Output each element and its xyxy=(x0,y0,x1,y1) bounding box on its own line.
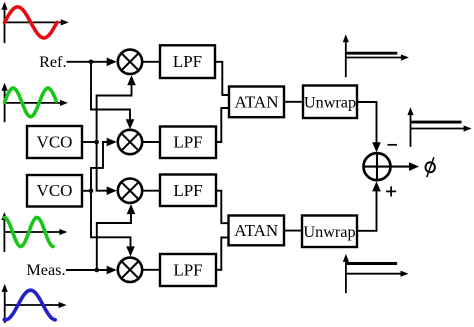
svg-text:Unwrap: Unwrap xyxy=(304,93,356,111)
wire LPF2 to ATAN1 lower input xyxy=(216,108,229,142)
node Meas junction xyxy=(95,268,100,273)
mixer M2 xyxy=(118,130,142,154)
reference input waveform (red sine) xyxy=(5,7,58,38)
wire ATAN1 to Unwrap1 xyxy=(284,101,303,103)
svg-text:LPF: LPF xyxy=(173,52,202,71)
wire Ref down to mixer M2 top xyxy=(91,62,134,129)
phase difference graph axes xyxy=(407,107,471,147)
mixer M1 xyxy=(118,50,142,74)
wire mixer M4 to LPF4 xyxy=(142,269,160,271)
ATAN2 box xyxy=(229,216,285,246)
wire Unwrap1 to summer minus input xyxy=(357,102,381,152)
wire mixer M1 to LPF1 xyxy=(142,61,160,63)
svg-text:LPF: LPF xyxy=(173,181,202,200)
svg-text:VCO: VCO xyxy=(37,132,73,151)
wire ATAN2 to Unwrap2 xyxy=(284,230,302,232)
mixer M3 xyxy=(118,179,142,203)
reference input waveform graph (red sine) axes xyxy=(1,2,68,43)
wire LPF4 to ATAN2 lower input xyxy=(216,238,229,270)
VCO2 output waveform (green cosine) xyxy=(4,218,53,247)
wire VCO1 down to mixer M3 left xyxy=(97,142,117,195)
VCO U1 box xyxy=(27,126,82,158)
wire VCO2 output stub xyxy=(82,190,93,192)
wire summer output phi xyxy=(390,162,419,171)
svg-text:Unwrap: Unwrap xyxy=(303,223,355,241)
node Ref junction xyxy=(89,60,94,65)
phase difference signal (flat line) xyxy=(411,121,461,124)
svg-text:ATAN: ATAN xyxy=(234,221,278,240)
wire VCO2 down to mixer M4 top xyxy=(91,191,135,257)
wire LPF1 to ATAN1 upper input xyxy=(215,62,229,95)
wire Unwrap2 to summer plus input xyxy=(357,181,381,230)
LPF3 box xyxy=(160,175,216,207)
svg-text:LPF: LPF xyxy=(173,260,202,279)
svg-text:ATAN: ATAN xyxy=(235,92,279,111)
svg-text:Ref.: Ref. xyxy=(39,53,66,71)
svg-text:VCO: VCO xyxy=(37,181,73,200)
summing junction S1 xyxy=(364,153,391,180)
node VCO2 junction xyxy=(89,189,94,194)
wire LPF3 to ATAN2 upper input xyxy=(216,191,229,224)
Unwrap2 box xyxy=(302,216,357,248)
VCO1 output waveform graph (green sine) axes xyxy=(2,83,68,122)
node VCO1 junction xyxy=(94,140,99,145)
svg-text:LPF: LPF xyxy=(173,133,202,152)
label Ref. xyxy=(39,53,66,71)
mixer M4 xyxy=(118,258,142,282)
wire mixer M3 to LPF3 xyxy=(142,190,160,192)
LPF2 box xyxy=(160,127,216,159)
unwrapped reference phase signal (flat line) xyxy=(347,52,398,55)
label phi xyxy=(425,157,436,177)
ATAN1 box xyxy=(229,87,284,118)
Unwrap1 box xyxy=(303,86,357,119)
unwrapped reference phase graph axes xyxy=(343,34,409,77)
label plus sign xyxy=(386,186,396,196)
wire Meas to mixer M4 xyxy=(66,266,117,275)
label Meas. xyxy=(26,261,65,279)
wire VCO1 output stub xyxy=(82,141,98,143)
measured input waveform graph (blue sine) axes xyxy=(2,284,67,323)
svg-text:Meas.: Meas. xyxy=(26,261,65,279)
LPF4 box xyxy=(160,254,216,286)
wire VCO1 up to mixer M1 bottom xyxy=(97,75,136,142)
unwrapped measured phase graph axes xyxy=(343,254,409,293)
label minus sign xyxy=(388,144,398,146)
VCO2 output waveform graph (green cosine) axes xyxy=(1,212,67,252)
LPF1 box xyxy=(160,45,215,78)
VCO U2 box xyxy=(27,175,82,207)
wire VCO2 up to mixer M2 left xyxy=(91,138,117,191)
wire mixer M2 to LPF2 xyxy=(142,141,160,143)
unwrapped measured phase signal (flat line) xyxy=(347,262,397,265)
measured input waveform (blue sine) xyxy=(4,290,55,320)
wire Ref to mixer M1 xyxy=(67,58,117,67)
VCO1 output waveform (green sine) xyxy=(5,88,57,117)
wire Meas up to mixer M3 bottom xyxy=(97,204,136,270)
